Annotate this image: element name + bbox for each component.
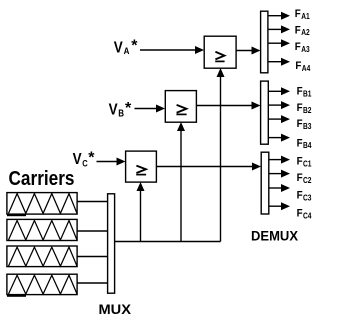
carrier source CAR2 [7,219,77,240]
svg-text:MUX: MUX [99,301,132,317]
wire FC2 output [269,170,290,178]
svg-text:A: A [124,46,130,57]
svg-text:F: F [295,60,301,72]
label FA2 [295,24,310,37]
wire U1 to demux DMA [236,47,261,55]
wire FB2 output [268,101,290,109]
svg-text:F: F [297,156,303,168]
demux DMC [261,152,269,214]
svg-text:F: F [297,137,303,149]
label FB1 [297,86,312,99]
svg-text:F: F [297,118,303,130]
svg-text:C4: C4 [303,211,312,220]
wire riser to comparator U3 [137,182,145,242]
svg-text:F: F [295,8,301,20]
label FB4 [297,137,312,150]
wire FA3 output [268,39,290,47]
comparator U2 [165,91,196,123]
label FC3 [297,190,312,203]
svg-text:F: F [297,208,303,220]
svg-text:F: F [297,190,303,202]
svg-text:A1: A1 [301,12,310,21]
label FC4 [297,208,312,221]
carrier source CAR4 [7,274,77,294]
svg-text:Carriers: Carriers [9,168,75,190]
wire FB4 output [268,134,290,142]
svg-text:F: F [297,86,303,98]
svg-text:F: F [295,24,301,36]
label FC1 [297,156,312,169]
wire FA2 output [268,25,290,33]
svg-text:*: * [131,38,138,55]
label FB3 [297,118,312,131]
svg-text:C2: C2 [303,176,312,185]
carrier source CAR3 [7,246,77,267]
svg-text:V: V [73,151,82,168]
wire CAR3 to MUX [77,256,107,258]
wire riser to comparator U2 [177,122,185,242]
svg-text:V: V [114,40,123,57]
demux DMA [261,11,268,73]
svg-text:B1: B1 [303,90,312,99]
wire VA* to comparator U1 [140,46,204,54]
carrier CAR1 underline mark [7,214,26,216]
wire FC1 output [269,156,290,164]
wire riser to comparator U1 [217,68,225,242]
wire FB3 output [268,115,290,123]
wire FA1 output [268,12,290,20]
comparator U3 [126,151,157,182]
label FC2 [297,172,312,185]
wire CAR4 to MUX [77,282,107,284]
wire FB1 output [268,87,290,95]
label FA3 [295,41,310,54]
svg-text:A4: A4 [302,64,311,73]
svg-text:DEMUX: DEMUX [251,228,299,244]
svg-text:B2: B2 [303,106,312,115]
wire FC3 output [269,184,290,192]
svg-text:F: F [297,172,303,184]
svg-text:B3: B3 [303,122,312,131]
svg-text:C: C [82,158,88,169]
label FB2 [297,102,312,115]
label FA4 [295,60,310,73]
wire CAR2 to MUX [77,230,107,232]
wire VB* to comparator U2 [135,105,166,113]
svg-text:A3: A3 [301,45,310,54]
wire VC* to comparator U3 [97,158,126,166]
mux M1 [108,194,115,293]
svg-text:F: F [295,41,301,53]
carrier CAR4 underline mark [7,295,26,297]
comparator U1 [204,36,236,68]
label FA1 [295,8,310,21]
wire CAR1 to MUX [77,201,107,203]
wire FC4 output [269,202,290,210]
svg-text:B4: B4 [303,141,312,150]
wire U2 to demux DMB [197,102,261,110]
wire MUX output bus [115,241,221,243]
svg-text:V: V [109,102,118,119]
svg-text:*: * [88,150,95,167]
svg-text:C1: C1 [303,160,312,169]
carrier source CAR1 [7,193,77,215]
svg-text:F: F [297,102,303,114]
svg-text:A2: A2 [301,28,310,37]
svg-text:C3: C3 [303,193,312,202]
wire U3 to demux DMC [157,163,262,171]
svg-text:*: * [125,100,132,117]
wire FA4 output [268,58,290,66]
svg-text:B: B [118,108,124,119]
demux DMB [261,81,269,144]
